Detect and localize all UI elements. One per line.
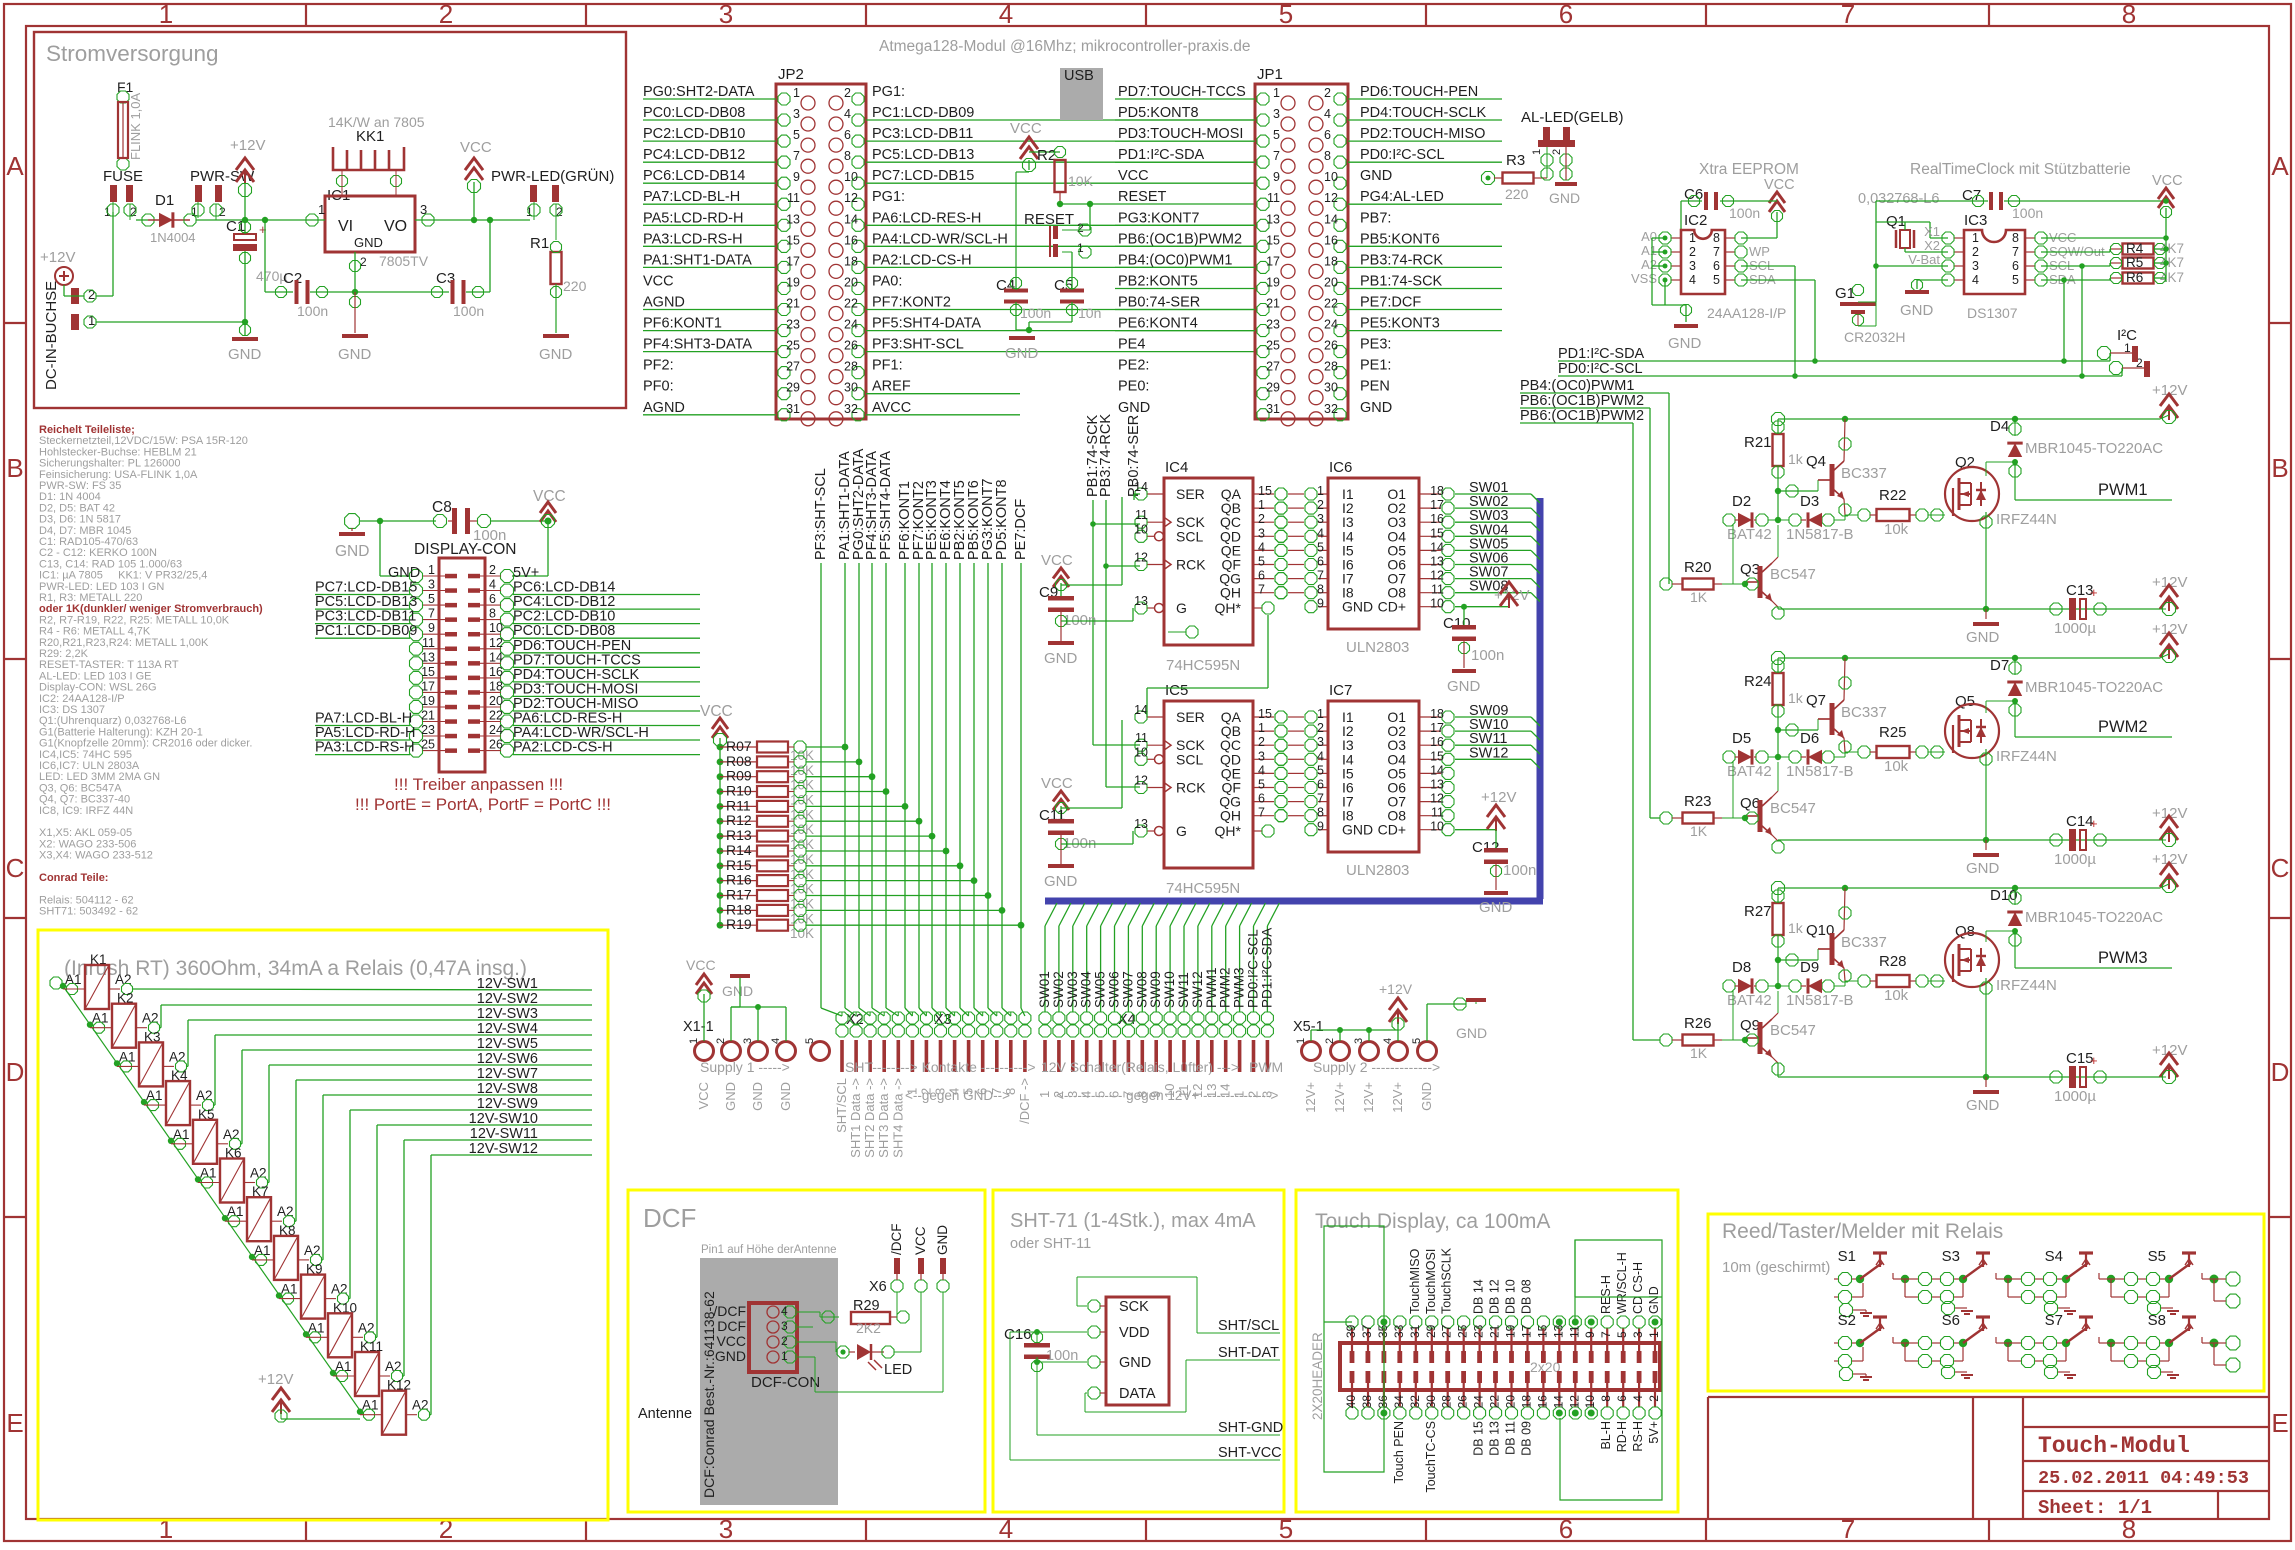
svg-text:27: 27 xyxy=(1440,1324,1454,1338)
svg-text:GND: GND xyxy=(1900,302,1934,319)
wire bus to pad PD0:I²C-SCL xyxy=(1246,903,1266,1012)
net label GND (JP1 pin 10) xyxy=(1360,168,1392,184)
svg-text:R19: R19 xyxy=(726,916,752,932)
svg-text:SW11: SW11 xyxy=(1176,972,1191,1008)
wire bus to pad SW01 xyxy=(1037,903,1057,1012)
svg-text:D6: D6 xyxy=(1800,730,1819,747)
svg-text:E: E xyxy=(6,1408,23,1438)
capacitor C14 1000u xyxy=(2050,805,2187,868)
svg-text:PE7:DCF: PE7:DCF xyxy=(1360,295,1421,311)
net label SW05 xyxy=(1455,536,1540,559)
ground GND under IC2 xyxy=(1668,326,1702,352)
svg-text:A1: A1 xyxy=(362,1398,379,1413)
connector X6 xyxy=(869,1224,950,1296)
svg-text:PE3:: PE3: xyxy=(1360,337,1391,353)
supply +12V X5 xyxy=(1311,981,1413,1041)
svg-text:12V+: 12V+ xyxy=(1361,1082,1376,1113)
svg-text:PF3:SHT-SCL: PF3:SHT-SCL xyxy=(872,337,964,353)
svg-text:36: 36 xyxy=(1376,1395,1390,1409)
svg-text:10: 10 xyxy=(1134,745,1148,759)
svg-text:25.02.2011 04:49:53: 25.02.2011 04:49:53 xyxy=(2038,1468,2249,1489)
connector I2C xyxy=(2098,327,2151,377)
svg-text:PA6:LCD-RES-H: PA6:LCD-RES-H xyxy=(872,210,981,226)
net label PA6:LCD-RES-H (DISPLAY-CON pin 22) xyxy=(513,711,700,727)
svg-text:12: 12 xyxy=(1567,1395,1581,1409)
svg-text:PB6:(OC1B)PWM2: PB6:(OC1B)PWM2 xyxy=(1520,393,1644,409)
svg-text:9: 9 xyxy=(1273,170,1280,184)
svg-text:RESET-TASTER: T 113A RT: RESET-TASTER: T 113A RT xyxy=(39,659,179,671)
svg-text:1: 1 xyxy=(688,1038,700,1044)
svg-text:VI: VI xyxy=(338,218,353,235)
resistor R20 1k xyxy=(1660,559,1745,605)
svg-text:PWR-SW: FS 35: PWR-SW: FS 35 xyxy=(39,480,121,492)
svg-text:R12: R12 xyxy=(726,812,752,828)
wire DCF row 2 xyxy=(797,1326,813,1328)
svg-text:33: 33 xyxy=(1392,1324,1406,1338)
svg-text:2: 2 xyxy=(918,1088,933,1095)
net label PB0:74-SER (JP1 pin 21) xyxy=(1115,295,1255,311)
svg-text:11: 11 xyxy=(1135,508,1148,522)
net label 12V-SW7 xyxy=(295,1066,592,1221)
svg-text:GND: GND xyxy=(935,1225,950,1255)
svg-text:1N5817-B: 1N5817-B xyxy=(1786,526,1854,543)
svg-text:IC2: IC2 xyxy=(1684,212,1707,229)
svg-text:GND: GND xyxy=(1419,1082,1434,1111)
svg-text:6: 6 xyxy=(1324,128,1331,142)
net label 12V-SW2 xyxy=(160,991,592,1028)
svg-text:SHT-VCC: SHT-VCC xyxy=(1218,1445,1282,1461)
switch S8 xyxy=(2099,1312,2196,1379)
svg-text:29: 29 xyxy=(1266,381,1280,395)
svg-text:A: A xyxy=(2271,151,2289,181)
svg-text:TouchMOSI: TouchMOSI xyxy=(1424,1249,1438,1314)
svg-text:DS1307: DS1307 xyxy=(1967,305,2018,321)
svg-text:15: 15 xyxy=(786,233,800,247)
net label AREF (JP2 pin 30) xyxy=(866,379,1020,395)
svg-text:8: 8 xyxy=(844,149,851,163)
svg-text:B: B xyxy=(6,453,23,483)
svg-text:AREF: AREF xyxy=(872,379,911,395)
svg-text:1: 1 xyxy=(1258,721,1265,735)
net label PC6:LCD-DB14 (JP2 pin 9) xyxy=(643,168,776,184)
svg-text:22: 22 xyxy=(1324,297,1338,311)
net label PB1:74-SCK (JP1 pin 20) xyxy=(1348,274,1502,290)
svg-text:10K: 10K xyxy=(1068,173,1094,189)
svg-text:RESET: RESET xyxy=(1024,211,1074,228)
svg-text:RESET: RESET xyxy=(1118,189,1166,205)
svg-text:6: 6 xyxy=(1615,1395,1629,1402)
svg-text:1: 1 xyxy=(1972,231,1979,245)
supply VCC above R2 xyxy=(1010,120,1060,172)
svg-text:2: 2 xyxy=(1324,86,1331,100)
svg-text:A1: A1 xyxy=(1641,243,1657,258)
wire bus to pad SW05 xyxy=(1093,903,1113,1012)
svg-text:PB3:74-RCK: PB3:74-RCK xyxy=(1098,414,1114,497)
net label PD3:TOUCH-MOSI (JP1 pin 5) xyxy=(1115,126,1255,142)
wire bus to pad SW10 xyxy=(1162,903,1182,1012)
svg-text:3: 3 xyxy=(719,0,733,29)
svg-text:1000µ: 1000µ xyxy=(2054,1088,2096,1105)
svg-text:R07: R07 xyxy=(726,738,752,754)
wire bus to pad SW08 xyxy=(1134,903,1154,1012)
svg-text:8: 8 xyxy=(1003,1088,1018,1095)
svg-text:29: 29 xyxy=(1424,1324,1438,1338)
net label PC4:LCD-DB12 (DISPLAY-CON pin 6) xyxy=(513,594,700,610)
svg-text:11: 11 xyxy=(1431,806,1444,820)
svg-text:VO: VO xyxy=(384,218,407,235)
net label PA7:LCD-BL-H (DISPLAY-CON pin 21) xyxy=(315,711,412,727)
svg-text:7: 7 xyxy=(1120,1091,1135,1098)
svg-text:BC547: BC547 xyxy=(1770,566,1816,583)
net label SW09 xyxy=(1455,703,1540,726)
svg-text:21: 21 xyxy=(1266,297,1280,311)
svg-text:PWM: PWM xyxy=(1249,1059,1283,1075)
svg-text:1: 1 xyxy=(904,1088,919,1095)
svg-text:BC337: BC337 xyxy=(1841,934,1887,951)
svg-text:12: 12 xyxy=(1134,774,1148,788)
net label PC5:LCD-DB13 (DISPLAY-CON pin 5) xyxy=(315,594,417,610)
svg-text:R21: R21 xyxy=(1744,434,1772,451)
svg-text:28: 28 xyxy=(1440,1395,1454,1409)
svg-text:PD1:I²C-SDA: PD1:I²C-SDA xyxy=(1118,147,1205,163)
svg-text:D7: D7 xyxy=(1990,657,2009,674)
svg-text:Feinsicherung: USA-FLINK 1,0A: Feinsicherung: USA-FLINK 1,0A xyxy=(39,469,198,481)
capacitor C8 100n xyxy=(432,499,548,544)
resistor R13 10K xyxy=(717,827,936,852)
svg-text:PB2:KONT5: PB2:KONT5 xyxy=(1118,274,1198,290)
diode D5 BAT42 xyxy=(1723,730,1781,818)
svg-text:QH: QH xyxy=(1220,808,1241,824)
connector X1-1 supply 1 xyxy=(683,1019,830,1061)
supply VCC X1 xyxy=(686,957,716,1041)
svg-text:DB 11: DB 11 xyxy=(1504,1421,1518,1455)
svg-text:S8: S8 xyxy=(2148,1312,2166,1329)
wire bus to pad SW11 xyxy=(1176,903,1196,1012)
resistor R29 2K2 xyxy=(851,1292,909,1336)
svg-text:26: 26 xyxy=(844,339,858,353)
svg-text:PD3:TOUCH-MOSI: PD3:TOUCH-MOSI xyxy=(513,681,638,697)
net label PC1:LCD-DB09 (DISPLAY-CON pin 9) xyxy=(315,623,417,639)
svg-text:R09: R09 xyxy=(726,768,752,784)
svg-text:11: 11 xyxy=(1267,191,1280,205)
svg-text:SW12: SW12 xyxy=(1469,745,1509,761)
ground GND left of C8 xyxy=(335,514,436,560)
svg-text:16: 16 xyxy=(844,233,858,247)
svg-text:29: 29 xyxy=(786,381,800,395)
net label PD6:TOUCH-PEN (DISPLAY-CON pin 12) xyxy=(513,638,700,654)
svg-text:CR2032H: CR2032H xyxy=(1844,329,1905,345)
switch S6 xyxy=(1893,1312,1990,1379)
svg-text:PF6:KONT1: PF6:KONT1 xyxy=(643,316,722,332)
svg-text:14: 14 xyxy=(1551,1395,1565,1409)
svg-text:GND: GND xyxy=(1447,678,1481,695)
svg-text:Touch Display, ca 100mA: Touch Display, ca 100mA xyxy=(1315,1210,1550,1233)
svg-text:PWM2: PWM2 xyxy=(2098,718,2148,736)
wire VO to LED xyxy=(440,217,530,223)
connector X5-1 supply 2 xyxy=(1293,1019,1437,1061)
transistor Q9 BC547 xyxy=(1740,991,1816,1077)
svg-text:RCK: RCK xyxy=(1176,780,1206,796)
capacitor C2 100n xyxy=(265,270,358,319)
svg-text:GND: GND xyxy=(354,235,383,250)
svg-text:X1,X5: AKL 059-05: X1,X5: AKL 059-05 xyxy=(39,827,132,839)
diode D10 MBR1045-TO220AC xyxy=(1990,887,2163,968)
svg-text:R15: R15 xyxy=(726,857,752,873)
svg-text:PB0:74-SER: PB0:74-SER xyxy=(1118,295,1200,311)
svg-text:2: 2 xyxy=(715,1038,727,1044)
svg-text:A1: A1 xyxy=(92,1011,109,1026)
svg-text:11: 11 xyxy=(422,636,435,650)
svg-text:PA4:LCD-WR/SCL-H: PA4:LCD-WR/SCL-H xyxy=(872,231,1008,247)
svg-text:AVCC: AVCC xyxy=(872,400,911,416)
svg-text:6: 6 xyxy=(975,1088,990,1095)
svg-text:16: 16 xyxy=(1324,233,1338,247)
net label PG4:AL-LED (JP1 pin 12) xyxy=(1348,189,1502,205)
svg-text:19: 19 xyxy=(786,276,800,290)
svg-text:D8: D8 xyxy=(1732,959,1751,976)
net label PF7:KONT2 vertical wire xyxy=(911,481,927,1016)
net label PC7:LCD-DB15 (DISPLAY-CON pin 3) xyxy=(315,580,417,596)
capacitor C6 100n xyxy=(1681,186,1777,238)
svg-text:VCC: VCC xyxy=(716,1333,746,1349)
svg-text:9: 9 xyxy=(1317,820,1324,834)
svg-text:PC0:LCD-DB08: PC0:LCD-DB08 xyxy=(643,105,745,121)
svg-text:!!! Treiber anpassen !!!: !!! Treiber anpassen !!! xyxy=(394,775,563,794)
resistor R09 10K xyxy=(717,768,876,793)
svg-text:16: 16 xyxy=(1430,735,1444,749)
wire GND rail bottom xyxy=(96,319,248,325)
svg-text:1: 1 xyxy=(793,86,800,100)
svg-text:Q4: Q4 xyxy=(1806,453,1826,470)
net label PE6:KONT4 vertical wire xyxy=(938,480,955,1016)
svg-text:PF5:SHT4-DATA: PF5:SHT4-DATA xyxy=(878,451,894,560)
svg-text:1: 1 xyxy=(159,0,173,29)
net label PEN (JP1 pin 30) xyxy=(1360,379,1390,395)
svg-text:6: 6 xyxy=(1258,569,1265,583)
svg-text:D3, D6: 1N 5817: D3, D6: 1N 5817 xyxy=(39,514,121,526)
svg-text:3: 3 xyxy=(793,107,800,121)
svg-text:SER: SER xyxy=(1176,486,1205,502)
svg-text:15: 15 xyxy=(1430,749,1444,763)
wire bus to pad PD1:I²C-SDA xyxy=(1259,903,1279,1012)
net label PG1: (JP2 pin 12) xyxy=(872,189,905,205)
svg-text:DB 10: DB 10 xyxy=(1504,1279,1518,1314)
svg-text:26: 26 xyxy=(1456,1395,1470,1409)
svg-text:A1: A1 xyxy=(200,1166,217,1181)
svg-text:6: 6 xyxy=(844,128,851,142)
svg-text:Conrad Teile:: Conrad Teile: xyxy=(39,872,108,884)
svg-text:SER: SER xyxy=(1176,709,1205,725)
svg-text:GND: GND xyxy=(539,346,573,363)
resistor R5 4K7 xyxy=(2041,255,2184,376)
svg-text:PC4:LCD-DB12: PC4:LCD-DB12 xyxy=(643,147,745,163)
net label RESET (JP1 pin 11) xyxy=(1118,189,1166,205)
svg-text:CD+: CD+ xyxy=(1378,822,1406,838)
svg-text:3: 3 xyxy=(1065,1091,1080,1098)
svg-text:SW10: SW10 xyxy=(1162,971,1177,1008)
svg-text:14: 14 xyxy=(489,650,503,664)
svg-text:15: 15 xyxy=(1258,707,1272,721)
svg-text:4: 4 xyxy=(1382,1038,1394,1044)
svg-text:R16: R16 xyxy=(726,872,752,888)
svg-text:+12V: +12V xyxy=(1379,981,1413,997)
svg-text:SHT4 Data ->: SHT4 Data -> xyxy=(890,1078,905,1158)
svg-text:BC337: BC337 xyxy=(1841,465,1887,482)
svg-text:DB 09: DB 09 xyxy=(1520,1421,1534,1456)
svg-text:2: 2 xyxy=(1551,149,1563,155)
svg-text:19: 19 xyxy=(1504,1324,1518,1338)
net label PE7:DCF (JP1 pin 22) xyxy=(1348,295,1502,311)
svg-text:7: 7 xyxy=(2012,245,2019,259)
net label PB7: (JP1 pin 14) xyxy=(1360,210,1391,226)
transistor Q8 IRFZ44N MOSFET xyxy=(1945,923,2057,1077)
svg-text:R28: R28 xyxy=(1879,953,1907,970)
svg-text:7: 7 xyxy=(989,1088,1004,1095)
svg-text:25: 25 xyxy=(421,738,435,752)
svg-text:5: 5 xyxy=(1093,1091,1108,1098)
supply VCC RTC xyxy=(2152,173,2183,282)
svg-text:18: 18 xyxy=(1324,254,1338,268)
svg-text:PG4:AL-LED: PG4:AL-LED xyxy=(1360,189,1444,205)
svg-text:30: 30 xyxy=(1424,1395,1438,1409)
net label PWM1 xyxy=(2015,481,2172,500)
svg-text:Relais: 504112 - 62: Relais: 504112 - 62 xyxy=(39,894,134,906)
svg-text:17: 17 xyxy=(1430,498,1444,512)
IC U IC5 74HC595N xyxy=(1134,682,1253,897)
svg-text:GND: GND xyxy=(1360,400,1392,416)
wire bus to pad SW03 xyxy=(1065,903,1085,1012)
net label 12V-SW9 xyxy=(349,1096,592,1299)
svg-text:6: 6 xyxy=(1317,555,1324,569)
svg-text:74HC595N: 74HC595N xyxy=(1166,657,1240,674)
svg-text:D4: D4 xyxy=(1990,418,2009,435)
svg-text:PC0:LCD-DB08: PC0:LCD-DB08 xyxy=(513,623,615,639)
svg-text:21: 21 xyxy=(421,709,435,723)
svg-text:WP: WP xyxy=(1749,244,1770,259)
svg-text:1N5817-B: 1N5817-B xyxy=(1786,763,1854,780)
svg-text:11: 11 xyxy=(1567,1325,1581,1338)
svg-text:PE1:: PE1: xyxy=(1360,358,1391,374)
svg-text:10: 10 xyxy=(1134,522,1148,536)
svg-text:D5: D5 xyxy=(1732,730,1751,747)
svg-text:1: 1 xyxy=(1317,484,1324,498)
supply VCC above DISPLAY-CON xyxy=(512,488,566,576)
capacitor C11 100n with VCC/GND xyxy=(1039,720,1133,890)
net label PE5:KONT3 (JP1 pin 24) xyxy=(1348,316,1502,332)
svg-text:100n: 100n xyxy=(1503,862,1536,879)
section box DCF xyxy=(628,1190,985,1512)
net label PD0:I²C-SCL (JP1 pin 8) xyxy=(1348,147,1502,163)
svg-text:A1: A1 xyxy=(119,1049,136,1064)
value 0,032768-L6 xyxy=(1858,191,1939,207)
svg-text:GND: GND xyxy=(228,346,262,363)
svg-text:oder SHT-11: oder SHT-11 xyxy=(1010,1236,1091,1252)
svg-text:VCC: VCC xyxy=(1118,168,1149,184)
svg-text:5: 5 xyxy=(1411,1038,1423,1044)
svg-text:PB1:74-SCK: PB1:74-SCK xyxy=(1360,274,1443,290)
wire bus to pad SW12 xyxy=(1190,903,1210,1012)
svg-text:DB 14: DB 14 xyxy=(1472,1279,1486,1314)
svg-text:PEN: PEN xyxy=(1360,379,1390,395)
svg-text:4: 4 xyxy=(770,1038,782,1044)
svg-text:R4 - R6: METALL 4,7K: R4 - R6: METALL 4,7K xyxy=(39,626,151,638)
net label PA0: (JP2 pin 20) xyxy=(872,274,902,290)
svg-text:A0: A0 xyxy=(1641,229,1657,244)
svg-text:R24: R24 xyxy=(1744,673,1772,690)
svg-text:R20,R21,R23,R24: METALL 1,00K: R20,R21,R23,R24: METALL 1,00K xyxy=(39,637,209,649)
svg-text:220: 220 xyxy=(1505,186,1529,202)
svg-text:23: 23 xyxy=(1472,1324,1486,1338)
IC U IC6 ULN2803 xyxy=(1275,459,1454,656)
svg-text:0,032768-L6: 0,032768-L6 xyxy=(1858,191,1939,207)
net label SW08 xyxy=(1455,579,1540,602)
capacitor C7 100n xyxy=(1876,187,2166,221)
svg-text:10: 10 xyxy=(489,621,503,635)
svg-text:R4: R4 xyxy=(2126,241,2144,256)
svg-text:PWM1: PWM1 xyxy=(2098,481,2148,499)
svg-text:USB: USB xyxy=(1064,68,1094,84)
resistor R08 10K xyxy=(717,753,863,778)
svg-text:4: 4 xyxy=(999,0,1013,29)
net label PD3:TOUCH-MOSI (DISPLAY-CON pin 18) xyxy=(513,681,700,697)
net label PC1:LCD-DB09 (JP2 pin 4) xyxy=(866,105,1255,121)
svg-text:RealTimeClock mit Stützbatteri: RealTimeClock mit Stützbatterie xyxy=(1910,161,2131,178)
net label PF5:SHT4-DATA (JP2 pin 24) xyxy=(866,316,1255,332)
net label PWM3 xyxy=(2015,949,2172,968)
net label PB0:74-SER vertical xyxy=(1126,415,1142,500)
svg-text:3: 3 xyxy=(742,1038,754,1044)
svg-text:2: 2 xyxy=(1258,735,1265,749)
svg-text:SHT/SCL: SHT/SCL xyxy=(834,1078,849,1133)
svg-text:SHT2 Data ->: SHT2 Data -> xyxy=(862,1078,877,1158)
net label PB6:(OC1B)PWM2 a xyxy=(1520,393,1660,818)
svg-text:SHT71: 503492 - 62: SHT71: 503492 - 62 xyxy=(39,906,138,918)
net label SW06 xyxy=(1455,551,1540,574)
svg-text:35: 35 xyxy=(1376,1324,1390,1338)
svg-text:22: 22 xyxy=(844,297,858,311)
svg-text:2: 2 xyxy=(1258,512,1265,526)
svg-text:R23: R23 xyxy=(1684,793,1712,810)
net label PE2: (JP1 pin 27) xyxy=(1118,358,1149,374)
svg-text:7: 7 xyxy=(1258,806,1265,820)
svg-text:30: 30 xyxy=(844,381,858,395)
svg-text:G1(Batterie Halterung): KZH 20: G1(Batterie Halterung): KZH 20-1 xyxy=(39,726,203,738)
svg-text:24: 24 xyxy=(489,723,503,737)
svg-text:18: 18 xyxy=(1430,707,1444,721)
transistor Q6 BC547 xyxy=(1740,762,1816,853)
resistor R07 10K xyxy=(717,738,849,763)
svg-text:TouchMISO: TouchMISO xyxy=(1408,1248,1422,1314)
svg-text:16: 16 xyxy=(1430,512,1444,526)
net label PD2:TOUCH-MISO (JP1 pin 6) xyxy=(1348,126,1502,142)
svg-text:PG0:SHT2-DATA: PG0:SHT2-DATA xyxy=(643,84,755,100)
svg-text:PD5:KONT8: PD5:KONT8 xyxy=(994,479,1010,560)
svg-text:12V+: 12V+ xyxy=(1332,1082,1347,1113)
svg-text:24: 24 xyxy=(844,318,858,332)
wire IC3 pin8 VCC xyxy=(2041,235,2169,241)
svg-text:SHT-71 (1-4Stk.), max 4mA: SHT-71 (1-4Stk.), max 4mA xyxy=(1010,1210,1256,1232)
svg-text:1: 1 xyxy=(1647,1331,1661,1338)
net label PC0:LCD-DB08 (JP2 pin 3) xyxy=(643,105,776,121)
svg-text:G: G xyxy=(1176,823,1187,839)
svg-text:A2: A2 xyxy=(1641,257,1657,272)
svg-text:VCC: VCC xyxy=(696,1082,711,1109)
svg-text:4: 4 xyxy=(1317,526,1324,540)
svg-text:40: 40 xyxy=(1344,1395,1358,1409)
svg-text:DB 08: DB 08 xyxy=(1520,1279,1534,1314)
svg-text:7805TV: 7805TV xyxy=(379,253,429,269)
wires IC5 outputs to IC7 inputs xyxy=(1253,707,1287,822)
